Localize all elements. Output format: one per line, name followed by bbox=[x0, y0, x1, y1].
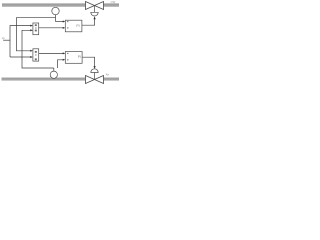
svg-text:PI: PI bbox=[78, 55, 81, 59]
svg-text:CW: CW bbox=[111, 0, 116, 4]
svg-text:Air: Air bbox=[106, 73, 109, 77]
svg-text:PI: PI bbox=[76, 24, 79, 28]
